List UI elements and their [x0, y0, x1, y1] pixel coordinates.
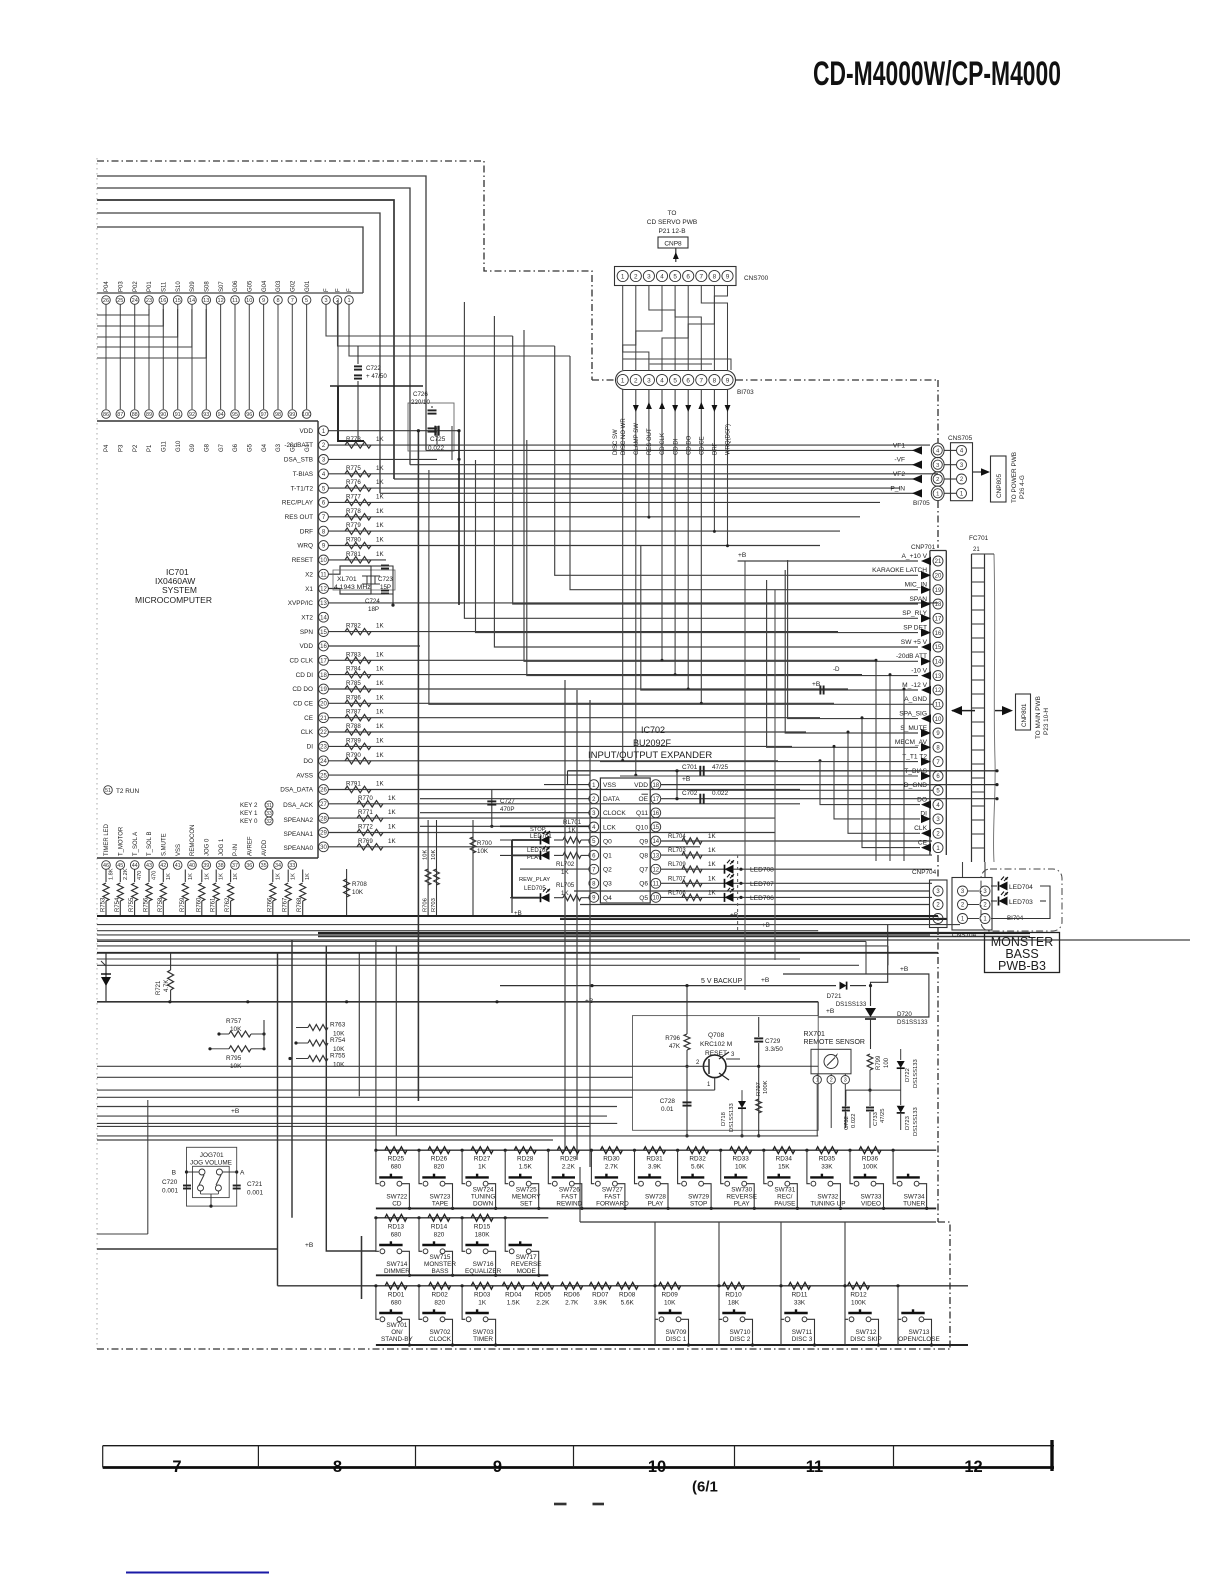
svg-text:CD DI: CD DI: [296, 672, 314, 679]
svg-text:D_GND: D_GND: [904, 782, 927, 789]
svg-text:18: 18: [652, 783, 659, 789]
svg-text:Q5: Q5: [639, 895, 648, 902]
svg-text:R778: R778: [346, 508, 361, 515]
svg-text:T_SOL A: T_SOL A: [133, 832, 139, 856]
svg-text:45: 45: [117, 863, 123, 869]
svg-text:F: F: [336, 288, 342, 292]
svg-text:Q9: Q9: [639, 838, 648, 845]
svg-text:DISC SW: DISC SW: [613, 429, 619, 455]
svg-text:29: 29: [320, 831, 327, 837]
svg-text:VDD: VDD: [300, 428, 314, 435]
svg-text:RD05: RD05: [535, 1291, 552, 1298]
svg-text:99: 99: [289, 412, 295, 418]
svg-text:6: 6: [592, 853, 596, 859]
svg-text:1K: 1K: [388, 838, 396, 845]
svg-text:P_IN: P_IN: [890, 485, 905, 492]
svg-text:CLOCK: CLOCK: [603, 810, 626, 817]
svg-text:33: 33: [266, 811, 272, 817]
svg-text:3: 3: [936, 817, 940, 823]
svg-text:3: 3: [647, 377, 651, 384]
svg-text:6: 6: [936, 774, 940, 780]
svg-text:RD06: RD06: [564, 1291, 581, 1298]
svg-text:7: 7: [291, 298, 294, 304]
svg-text:4: 4: [592, 825, 596, 831]
svg-text:Q11: Q11: [636, 810, 648, 817]
svg-text:DSA_ACK: DSA_ACK: [283, 802, 314, 809]
svg-text:IC702: IC702: [641, 725, 665, 735]
svg-text:1K: 1K: [166, 873, 172, 880]
svg-text:FORWARD: FORWARD: [596, 1201, 629, 1208]
svg-text:VSS: VSS: [176, 844, 182, 856]
svg-text:7: 7: [700, 273, 704, 280]
svg-text:R766: R766: [267, 897, 273, 912]
svg-text:Q0: Q0: [603, 838, 612, 845]
svg-text:Q8: Q8: [639, 853, 648, 860]
svg-text:2: 2: [322, 443, 326, 449]
svg-text:SPEANA2: SPEANA2: [284, 817, 314, 824]
svg-text:100: 100: [302, 412, 311, 418]
svg-text:3.3/50: 3.3/50: [765, 1046, 783, 1053]
svg-text:-VF: -VF: [894, 457, 905, 464]
svg-text:13: 13: [203, 298, 209, 304]
svg-text:R796: R796: [665, 1035, 680, 1042]
svg-text:CNP8: CNP8: [664, 241, 682, 248]
svg-text:SW725: SW725: [516, 1186, 537, 1193]
svg-text:44: 44: [132, 863, 138, 869]
svg-text:+ 47/50: + 47/50: [366, 373, 387, 380]
svg-text:R787: R787: [346, 709, 361, 716]
svg-text:RD28: RD28: [517, 1156, 534, 1163]
svg-text:4: 4: [960, 449, 964, 455]
svg-text:Q2: Q2: [603, 867, 612, 874]
svg-text:1K: 1K: [188, 873, 194, 880]
svg-text:94: 94: [218, 412, 224, 418]
svg-text:DISC NO WR: DISC NO WR: [621, 418, 627, 455]
svg-text:G03: G03: [276, 280, 282, 292]
svg-text:97: 97: [261, 412, 267, 418]
svg-text:3: 3: [324, 298, 327, 304]
svg-text:1K: 1K: [376, 752, 384, 759]
svg-text:0.022: 0.022: [712, 790, 728, 797]
svg-text:REVERSE: REVERSE: [511, 1261, 542, 1268]
svg-text:R790: R790: [346, 752, 361, 759]
svg-text:DRF: DRF: [300, 528, 313, 535]
svg-text:24: 24: [132, 298, 138, 304]
svg-text:21: 21: [935, 559, 942, 565]
svg-text:RD36: RD36: [862, 1156, 879, 1163]
svg-text:5: 5: [936, 788, 940, 794]
svg-text:16: 16: [320, 644, 327, 650]
svg-text:G11: G11: [162, 440, 168, 452]
svg-text:SW712: SW712: [856, 1329, 877, 1336]
svg-text:STAND-BY: STAND-BY: [381, 1336, 414, 1343]
svg-text:1K: 1K: [275, 873, 281, 880]
svg-text:23: 23: [320, 745, 327, 751]
svg-text:AVSS: AVSS: [296, 772, 313, 779]
svg-text:R768: R768: [297, 897, 303, 912]
svg-text:SW733: SW733: [861, 1193, 882, 1200]
svg-text:CD CLK: CD CLK: [660, 433, 666, 455]
svg-text:PWB-B3: PWB-B3: [998, 959, 1046, 973]
svg-text:BI703: BI703: [737, 389, 754, 396]
svg-text:OE: OE: [638, 796, 648, 803]
svg-text:R703: R703: [431, 898, 437, 912]
svg-text:REC/PLAY: REC/PLAY: [282, 500, 314, 507]
svg-text:SPEANA1: SPEANA1: [284, 831, 314, 838]
svg-text:9: 9: [726, 377, 730, 384]
svg-text:SW711: SW711: [792, 1329, 813, 1336]
svg-text:RD33: RD33: [733, 1156, 750, 1163]
svg-text:1: 1: [961, 917, 965, 923]
svg-text:JOG VOLUME: JOG VOLUME: [190, 1160, 232, 1167]
svg-text:Q7: Q7: [639, 867, 648, 874]
svg-text:3: 3: [936, 889, 940, 895]
svg-text:2: 2: [592, 797, 596, 803]
svg-text:2.7K: 2.7K: [605, 1164, 619, 1171]
svg-text:EQUALIZER: EQUALIZER: [465, 1268, 502, 1275]
svg-text:R782: R782: [346, 623, 361, 630]
svg-text:680: 680: [391, 1299, 402, 1306]
svg-text:XVPP/IC: XVPP/IC: [288, 600, 314, 607]
svg-text:4: 4: [936, 803, 940, 809]
svg-text:DRF: DRF: [713, 442, 719, 455]
svg-text:LED707: LED707: [750, 881, 774, 888]
svg-text:-D: -D: [833, 666, 840, 673]
svg-text:DI: DI: [307, 744, 314, 751]
svg-text:470: 470: [137, 871, 143, 880]
svg-text:100K: 100K: [863, 1164, 879, 1171]
svg-text:VIDEO: VIDEO: [861, 1201, 881, 1208]
svg-text:RD02: RD02: [432, 1291, 449, 1298]
svg-text:SYSTEM: SYSTEM: [162, 585, 197, 595]
svg-text:D722: D722: [905, 1068, 911, 1082]
svg-text:1: 1: [621, 377, 625, 384]
svg-text:REMOCON: REMOCON: [190, 825, 196, 856]
svg-text:P03: P03: [119, 281, 125, 292]
svg-text:REVERSE: REVERSE: [726, 1193, 757, 1200]
svg-text:R706: R706: [423, 898, 429, 912]
svg-text:+B: +B: [682, 776, 691, 783]
svg-text:10: 10: [648, 1458, 666, 1476]
svg-text:11: 11: [806, 1458, 823, 1476]
svg-text:C732: C732: [844, 1116, 850, 1130]
svg-text:CD: CD: [392, 1201, 402, 1208]
svg-text:A_+10 V: A_+10 V: [902, 553, 928, 560]
svg-text:ON/: ON/: [391, 1329, 403, 1336]
svg-text:Q10: Q10: [636, 824, 649, 831]
svg-text:KEY 2: KEY 2: [240, 802, 258, 809]
svg-text:12: 12: [964, 1458, 982, 1476]
svg-text:G4: G4: [262, 443, 268, 452]
svg-text:LED703: LED703: [1009, 899, 1033, 906]
svg-text:R756: R756: [144, 897, 150, 912]
svg-text:2.2K: 2.2K: [123, 868, 129, 880]
svg-text:3: 3: [647, 273, 651, 280]
svg-text:5 V BACKUP: 5 V BACKUP: [701, 978, 743, 985]
svg-text:87: 87: [117, 412, 123, 418]
svg-text:MEMORY: MEMORY: [512, 1193, 541, 1200]
svg-text:WRQ: WRQ: [297, 543, 313, 550]
svg-text:G8: G8: [205, 443, 211, 452]
svg-text:1K: 1K: [708, 833, 716, 840]
svg-text:0.01: 0.01: [661, 1106, 674, 1113]
svg-text:42: 42: [160, 863, 166, 869]
svg-text:CNS705: CNS705: [948, 435, 973, 442]
svg-text:BI705: BI705: [913, 500, 930, 507]
svg-text:CNS700: CNS700: [744, 275, 769, 282]
svg-text:90: 90: [160, 412, 166, 418]
svg-text:TUNING UP: TUNING UP: [810, 1201, 845, 1208]
svg-text:C725: C725: [430, 436, 446, 443]
svg-text:1K: 1K: [376, 551, 384, 558]
svg-text:C724: C724: [365, 598, 380, 605]
svg-text:16: 16: [160, 298, 166, 304]
svg-text:33K: 33K: [794, 1299, 806, 1306]
svg-text:41: 41: [175, 863, 181, 869]
svg-text:REW_PLAY: REW_PLAY: [519, 877, 550, 883]
svg-text:95: 95: [232, 412, 238, 418]
svg-text:23: 23: [146, 298, 152, 304]
svg-text:Q4: Q4: [603, 895, 612, 902]
svg-text:10K: 10K: [735, 1164, 747, 1171]
svg-text:R770: R770: [358, 795, 373, 802]
svg-text:8: 8: [333, 1458, 342, 1476]
svg-text:BU2092F: BU2092F: [633, 738, 672, 748]
svg-text:R757: R757: [226, 1018, 242, 1025]
svg-text:RD12: RD12: [850, 1291, 867, 1298]
svg-text:G5: G5: [248, 443, 254, 452]
svg-text:XT2: XT2: [301, 615, 313, 622]
svg-text:RL703: RL703: [668, 848, 686, 854]
svg-text:0.022: 0.022: [428, 445, 444, 452]
svg-text:1K: 1K: [478, 1299, 487, 1306]
svg-text:1K: 1K: [376, 651, 384, 658]
svg-text:TIMER LED: TIMER LED: [104, 823, 110, 856]
svg-text:8: 8: [936, 745, 940, 751]
svg-text:820: 820: [434, 1231, 445, 1238]
svg-text:R784: R784: [346, 666, 361, 673]
svg-text:C721: C721: [247, 1181, 263, 1188]
svg-text:S.MUTE: S.MUTE: [162, 833, 168, 856]
svg-text:R783: R783: [346, 651, 361, 658]
svg-text:SW702: SW702: [430, 1329, 451, 1336]
svg-text:R760: R760: [196, 897, 202, 912]
svg-text:38: 38: [218, 863, 224, 869]
svg-text:+B: +B: [761, 977, 770, 984]
svg-text:TAPE: TAPE: [432, 1201, 448, 1208]
svg-text:1K: 1K: [291, 873, 297, 880]
svg-text:DS1SS133: DS1SS133: [913, 1107, 919, 1136]
svg-text:9: 9: [493, 1458, 502, 1476]
svg-text:P26 4-G: P26 4-G: [1019, 475, 1026, 499]
svg-text:88: 88: [132, 412, 138, 418]
svg-text:1K: 1K: [376, 666, 384, 673]
svg-text:2: 2: [961, 903, 965, 909]
svg-text:2: 2: [936, 903, 940, 909]
svg-text:14: 14: [935, 660, 942, 666]
svg-text:S10: S10: [176, 281, 182, 292]
svg-text:2: 2: [936, 831, 940, 837]
svg-text:470: 470: [152, 871, 158, 880]
svg-text:FAST: FAST: [561, 1193, 577, 1200]
svg-text:1K: 1K: [376, 508, 384, 515]
svg-text:10: 10: [935, 717, 942, 723]
svg-text:R721: R721: [156, 980, 162, 995]
svg-text:R708: R708: [352, 881, 367, 888]
svg-text:R788: R788: [346, 723, 361, 730]
svg-text:1K: 1K: [376, 537, 384, 544]
svg-text:1K: 1K: [376, 680, 384, 687]
svg-text:SW730: SW730: [731, 1186, 752, 1193]
svg-text:G7: G7: [219, 443, 225, 452]
svg-text:RL707: RL707: [668, 876, 686, 882]
svg-text:12: 12: [320, 587, 327, 593]
svg-text:R775: R775: [346, 465, 361, 472]
svg-text:C720: C720: [162, 1179, 178, 1186]
svg-text:R789: R789: [346, 737, 361, 744]
svg-text:R755: R755: [129, 897, 135, 912]
svg-text:34: 34: [275, 863, 281, 869]
svg-text:10K: 10K: [664, 1299, 676, 1306]
svg-text:D718: D718: [721, 1112, 727, 1126]
svg-text:3: 3: [322, 458, 326, 464]
svg-text:6: 6: [322, 501, 326, 507]
svg-text:10: 10: [652, 896, 659, 902]
svg-text:5: 5: [673, 273, 677, 280]
svg-text:SW731: SW731: [774, 1186, 795, 1193]
svg-text:RL704: RL704: [668, 834, 686, 840]
svg-text:0.001: 0.001: [247, 1190, 263, 1197]
svg-text:12: 12: [217, 298, 223, 304]
svg-text:15: 15: [175, 298, 181, 304]
svg-text:3: 3: [592, 811, 596, 817]
svg-text:DS1SS133: DS1SS133: [836, 1001, 867, 1008]
svg-text:1K: 1K: [376, 479, 384, 486]
svg-text:16: 16: [652, 811, 659, 817]
svg-text:1K: 1K: [376, 709, 384, 716]
svg-text:R797: R797: [756, 1082, 762, 1096]
svg-text:1K: 1K: [568, 827, 576, 834]
svg-text:3: 3: [731, 1052, 735, 1058]
svg-text:15: 15: [935, 645, 942, 651]
svg-text:SW701: SW701: [386, 1322, 407, 1329]
svg-text:X2: X2: [305, 571, 313, 578]
svg-text:10K: 10K: [352, 889, 364, 896]
svg-text:1K: 1K: [219, 873, 225, 880]
svg-text:CNP805: CNP805: [996, 473, 1003, 498]
svg-text:13: 13: [652, 853, 659, 859]
svg-text:1K: 1K: [708, 875, 716, 882]
svg-text:39: 39: [203, 863, 209, 869]
svg-text:11: 11: [653, 882, 660, 888]
svg-text:S09: S09: [190, 281, 196, 292]
svg-text:1: 1: [707, 1082, 711, 1088]
svg-text:MONSTER: MONSTER: [424, 1261, 456, 1268]
svg-text:43: 43: [146, 863, 152, 869]
svg-text:R785: R785: [346, 680, 361, 687]
svg-text:R767: R767: [283, 897, 289, 912]
svg-text:R761: R761: [211, 897, 217, 912]
svg-text:MICROCOMPUTER: MICROCOMPUTER: [135, 595, 212, 605]
svg-text:36: 36: [246, 863, 252, 869]
svg-text:REC/: REC/: [777, 1193, 792, 1200]
svg-text:P1: P1: [147, 444, 153, 452]
svg-text:DS1SS133: DS1SS133: [729, 1103, 735, 1132]
svg-text:INPUT/OUTPUT EXPANDER: INPUT/OUTPUT EXPANDER: [588, 750, 712, 761]
svg-text:JOG 1: JOG 1: [219, 838, 225, 856]
svg-text:820: 820: [434, 1164, 445, 1171]
svg-text:R777: R777: [346, 493, 361, 500]
svg-text:CNP801: CNP801: [1021, 703, 1028, 727]
svg-text:RD14: RD14: [431, 1223, 448, 1230]
svg-text:SW710: SW710: [730, 1329, 751, 1336]
svg-text:RD08: RD08: [619, 1291, 636, 1298]
svg-text:Q3: Q3: [603, 881, 612, 888]
svg-text:1K: 1K: [388, 795, 396, 802]
svg-text:SW715: SW715: [430, 1254, 451, 1261]
svg-text:R759: R759: [180, 897, 186, 912]
svg-text:D721: D721: [827, 993, 842, 1000]
svg-text:X1: X1: [305, 586, 313, 593]
svg-text:B: B: [172, 1170, 177, 1177]
svg-text:6: 6: [686, 273, 690, 280]
svg-text:2: 2: [983, 903, 987, 909]
svg-text:LED706: LED706: [750, 895, 774, 902]
svg-text:33K: 33K: [821, 1164, 833, 1171]
svg-text:8: 8: [322, 529, 326, 535]
svg-text:PLAY: PLAY: [734, 1201, 751, 1208]
svg-text:CLK: CLK: [301, 729, 314, 736]
svg-text:100K: 100K: [851, 1299, 867, 1306]
svg-text:R763: R763: [330, 1022, 346, 1029]
svg-text:31: 31: [266, 803, 272, 809]
svg-text:86: 86: [103, 412, 109, 418]
svg-text:19: 19: [320, 687, 327, 693]
svg-text:1K: 1K: [204, 873, 210, 880]
svg-text:11: 11: [232, 298, 238, 304]
svg-text:C728: C728: [660, 1098, 676, 1105]
svg-text:2: 2: [960, 477, 964, 483]
svg-text:14: 14: [652, 839, 659, 845]
svg-text:G01: G01: [305, 280, 311, 292]
svg-text:RD35: RD35: [819, 1156, 836, 1163]
svg-text:SW714: SW714: [386, 1261, 407, 1268]
svg-text:R755: R755: [330, 1053, 346, 1060]
svg-text:A: A: [240, 1170, 245, 1177]
svg-text:27: 27: [320, 802, 327, 808]
svg-text:TIMER: TIMER: [473, 1336, 493, 1343]
svg-text:G05: G05: [248, 280, 254, 292]
svg-text:SPA_SIG: SPA_SIG: [899, 710, 927, 717]
svg-text:5: 5: [305, 298, 308, 304]
svg-text:+B: +B: [305, 1242, 314, 1249]
svg-text:VDD: VDD: [300, 643, 314, 650]
svg-text:1K: 1K: [708, 847, 716, 854]
svg-text:1.8K: 1.8K: [109, 868, 115, 880]
svg-text:10K: 10K: [477, 848, 489, 855]
svg-text:CE: CE: [304, 715, 313, 722]
svg-text:RD07: RD07: [592, 1291, 609, 1298]
svg-text:D723: D723: [905, 1116, 911, 1130]
svg-text:+B: +B: [231, 1108, 240, 1115]
svg-text:1K: 1K: [376, 436, 384, 443]
svg-text:PAUSE: PAUSE: [774, 1201, 795, 1208]
svg-text:SPN: SPN: [300, 629, 314, 636]
svg-text:CD CE: CD CE: [700, 436, 706, 455]
svg-text:1: 1: [322, 429, 326, 435]
svg-text:DISC SKIP: DISC SKIP: [850, 1336, 882, 1343]
svg-text:5.6K: 5.6K: [621, 1299, 635, 1306]
